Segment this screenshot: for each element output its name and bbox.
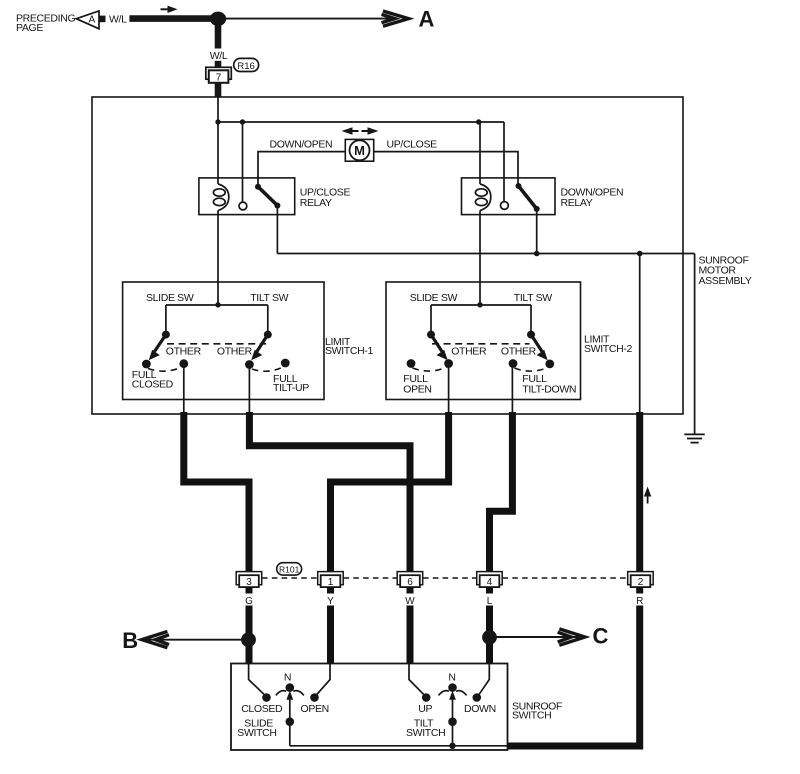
wire stubs below connectors and net colour labels xyxy=(249,587,640,593)
svg-text:OTHER: OTHER xyxy=(501,346,537,358)
sunroof switch box xyxy=(231,664,508,751)
svg-text:1: 1 xyxy=(328,577,334,588)
junction dot LS1 feed xyxy=(215,302,220,307)
LS2 tilt OTHER contact xyxy=(509,359,518,368)
wire G stub xyxy=(246,587,253,593)
svg-text:OTHER: OTHER xyxy=(217,346,253,358)
svg-text:TILT SW: TILT SW xyxy=(514,292,552,304)
wire LS2 tilt OTHER down xyxy=(511,364,513,415)
svg-text:B: B xyxy=(122,628,138,653)
relay K1 contact terminal circle xyxy=(239,202,247,210)
wire G inside switch xyxy=(249,664,265,695)
LS1 slide switch pivot xyxy=(162,331,170,339)
LS1 FULL TILT-UP contact xyxy=(281,359,290,368)
junction dot rail x478.7 xyxy=(476,119,481,124)
LS1 tilt switch arm arrow xyxy=(251,335,268,361)
FULL TILT-DOWN label xyxy=(522,373,576,396)
TILT SWITCH label xyxy=(406,718,445,740)
wire motor right to relay2 switch xyxy=(374,152,518,186)
svg-text:SLIDE SW: SLIDE SW xyxy=(410,292,458,304)
svg-text:N: N xyxy=(448,671,455,683)
mechanical link dashed (LS2) xyxy=(432,343,530,345)
connector 6 xyxy=(397,572,423,588)
ground xyxy=(684,434,704,442)
wire rail corner to right relay contact terminal xyxy=(503,122,505,202)
wire R to switch xyxy=(508,606,640,747)
junction dot ground rail x536.7 xyxy=(534,251,540,257)
wire motor left to relay1 switch xyxy=(258,152,345,187)
mechanical link dashed (LS1) xyxy=(167,343,266,345)
connector 4 xyxy=(477,572,503,588)
PRECEDING PAGE label xyxy=(16,13,75,35)
junction dot ground rail x639.7 xyxy=(637,251,643,257)
relay K1 UP/CLOSE relay box xyxy=(199,178,295,215)
LS2 slide switch pivot xyxy=(427,331,435,339)
svg-text:RELAY: RELAY xyxy=(561,197,593,209)
wire thick vertical W/L down xyxy=(215,16,222,49)
DOWN/OPEN RELAY label xyxy=(561,187,624,209)
svg-text:SWITCH-2: SWITCH-2 xyxy=(584,343,632,355)
connector label R101 xyxy=(277,563,302,575)
connector 7 xyxy=(206,67,232,83)
svg-text:CLOSED: CLOSED xyxy=(132,378,174,390)
svg-text:G: G xyxy=(245,596,253,607)
svg-text:R16: R16 xyxy=(237,61,254,72)
slide switch common arrow xyxy=(286,691,293,746)
svg-text:N: N xyxy=(284,671,291,683)
LS1 slide switch arm arrow xyxy=(149,335,166,361)
wire W/L inside box down xyxy=(217,97,219,122)
tilt switch DOWN contact xyxy=(473,693,482,702)
flow arrow on W/L wire xyxy=(161,6,178,13)
relay K2 DOWN/OPEN relay box xyxy=(462,178,556,215)
tilt switch pivot N xyxy=(448,683,457,692)
wire LS2 top tee xyxy=(431,304,531,306)
tilt common dot xyxy=(448,717,457,726)
svg-text:OTHER: OTHER xyxy=(166,346,202,358)
svg-text:Y: Y xyxy=(327,596,334,607)
slide switch CLOSED contact xyxy=(262,693,271,702)
relay K2 contact terminal circle xyxy=(501,202,509,210)
dashed travel arc (LS2 slide) xyxy=(413,367,448,371)
wire switch common rail xyxy=(290,745,508,747)
wire LS2 slide OTHER down xyxy=(448,364,450,415)
sunroof motor assembly box xyxy=(92,97,683,414)
SUNROOF MOTOR ASSEMBLY label xyxy=(699,254,752,287)
connector 1 xyxy=(318,572,344,588)
wire LS1 top tee xyxy=(166,304,268,306)
wire Y inside switch xyxy=(317,664,331,695)
LIMIT SWITCH-2 label xyxy=(584,334,632,355)
LS1 tilt switch pivot xyxy=(264,331,272,339)
wire W stub xyxy=(407,587,414,593)
limit switch-2 box xyxy=(386,282,581,400)
tilt switch common arrow xyxy=(449,691,456,746)
wire R stub xyxy=(636,587,643,593)
svg-text:DOWN/OPEN: DOWN/OPEN xyxy=(270,139,333,151)
wire Y thick route xyxy=(331,412,449,572)
wire L stub xyxy=(486,587,493,593)
LS1 FULL CLOSED contact xyxy=(142,360,151,369)
svg-text:6: 6 xyxy=(407,577,413,588)
page connector triangle A xyxy=(76,11,105,29)
wire rail to left relay contact terminal xyxy=(242,122,244,202)
arrowhead C xyxy=(558,629,585,645)
wire to chassis ground xyxy=(694,254,696,434)
limit switch-1 box xyxy=(123,282,324,400)
tilt switch UP contact xyxy=(422,693,431,702)
wire relay K2 arm to ground rail xyxy=(536,209,538,254)
LS2 FULL TILT-DOWN contact xyxy=(545,360,554,369)
svg-text:DOWN: DOWN xyxy=(464,703,496,715)
connector label R16 xyxy=(234,58,259,72)
wire LS1 right drop xyxy=(267,305,269,335)
junction dot LS2 feed xyxy=(477,302,482,307)
svg-text:W: W xyxy=(405,596,415,607)
wire L to switch xyxy=(486,606,493,664)
svg-text:W/L: W/L xyxy=(210,50,228,62)
wire LS1 tilt OTHER down xyxy=(248,365,250,415)
relay K2 coil xyxy=(475,184,490,211)
svg-text:SWITCH: SWITCH xyxy=(512,710,551,722)
svg-text:L: L xyxy=(487,596,493,607)
wire R thick route xyxy=(636,412,643,572)
svg-text:TILT-UP: TILT-UP xyxy=(273,382,309,394)
wire to C xyxy=(490,636,582,638)
svg-text:R: R xyxy=(636,596,643,607)
slide common dot xyxy=(286,717,295,726)
svg-text:ASSEMBLY: ASSEMBLY xyxy=(699,275,752,287)
wire W inside switch xyxy=(409,664,424,695)
dashed travel arc (LS1 tilt) xyxy=(252,367,284,372)
svg-text:PAGE: PAGE xyxy=(16,22,43,34)
wire W/L thick horizontal top xyxy=(129,15,217,22)
svg-text:OPEN: OPEN xyxy=(403,384,431,396)
wire thick below connector 7 xyxy=(215,83,222,98)
wire thick to connector 7 xyxy=(215,61,222,68)
SLIDE SWITCH label xyxy=(237,718,276,740)
wire power rail horizontal xyxy=(218,121,504,123)
wire arrow to A xyxy=(224,18,398,20)
svg-text:RELAY: RELAY xyxy=(300,197,332,209)
harness dashed line through connectors xyxy=(262,577,628,579)
svg-text:SWITCH: SWITCH xyxy=(237,727,276,739)
svg-text:2: 2 xyxy=(638,577,644,588)
svg-text:W/L: W/L xyxy=(109,13,127,25)
flow arrow up on wire R xyxy=(644,487,651,504)
FULL CLOSED label xyxy=(132,369,174,390)
svg-text:A: A xyxy=(88,14,95,25)
svg-text:A: A xyxy=(419,6,435,31)
wire Y stub xyxy=(327,587,334,593)
SUNROOF SWITCH label xyxy=(512,700,562,721)
FULL OPEN label xyxy=(403,373,431,396)
UP/CLOSE RELAY label xyxy=(300,187,351,209)
junction node top xyxy=(210,12,226,26)
wire G thick route xyxy=(184,412,249,572)
LS2 tilt switch pivot xyxy=(527,331,535,339)
LS1 tilt OTHER contact xyxy=(245,360,254,369)
slide switch OPEN contact xyxy=(310,693,319,702)
svg-text:TILT SW: TILT SW xyxy=(250,292,288,304)
wire L thick route xyxy=(490,412,513,572)
dashed travel arc (LS1 slide) xyxy=(148,367,182,371)
node B junction xyxy=(241,632,256,647)
svg-text:7: 7 xyxy=(216,73,222,84)
svg-text:TILT-DOWN: TILT-DOWN xyxy=(522,384,576,396)
svg-text:SLIDE SW: SLIDE SW xyxy=(146,292,194,304)
wire LS1 slide OTHER down xyxy=(183,364,185,414)
tilt wiper arcs xyxy=(439,691,467,696)
wire LS1 left drop xyxy=(165,305,167,335)
wire L inside switch xyxy=(479,664,490,695)
wire relay K1 arm to ground rail xyxy=(276,206,278,254)
motor direction arrows xyxy=(342,127,379,135)
svg-text:UP: UP xyxy=(418,703,432,715)
wire rail to left relay coil xyxy=(217,122,219,184)
junction dot rail x242.5 xyxy=(240,119,245,124)
svg-text:M: M xyxy=(354,143,365,158)
svg-text:C: C xyxy=(593,623,609,648)
LS2 slide switch arm arrow xyxy=(431,335,448,361)
wire R net vertical (thin inside box) xyxy=(639,254,641,415)
wire to B xyxy=(144,639,248,641)
wire relay K2 coil to limit switch 2 xyxy=(479,211,481,306)
LS2 slide OTHER contact xyxy=(444,359,453,368)
LS2 FULL OPEN contact xyxy=(407,359,416,368)
svg-text:SWITCH: SWITCH xyxy=(406,727,445,739)
relay K2 switch arm xyxy=(516,183,540,212)
svg-text:CLOSED: CLOSED xyxy=(241,703,283,715)
arrowhead B xyxy=(142,632,169,648)
slide switch pivot N xyxy=(286,683,295,692)
junction dot rail x218 xyxy=(215,119,220,124)
LIMIT SWITCH-1 label xyxy=(325,336,373,357)
connector 2 xyxy=(628,572,654,588)
relay K1 coil xyxy=(213,184,228,211)
wire W to switch xyxy=(407,606,414,664)
LS2 tilt switch arm arrow xyxy=(531,335,548,361)
wire W thick route xyxy=(249,412,410,572)
wire LS2 left drop xyxy=(430,305,432,335)
dashed travel arc (LS2 tilt) xyxy=(515,368,549,372)
wire LS2 right drop xyxy=(530,305,532,335)
LS1 slide OTHER contact xyxy=(179,359,188,368)
wire Y to switch xyxy=(327,606,334,664)
wire relay K1 coil to limit switch 1 xyxy=(217,211,219,306)
arrowhead A xyxy=(382,11,409,26)
slide wiper arcs xyxy=(276,691,304,696)
node C junction xyxy=(482,630,497,645)
svg-text:OTHER: OTHER xyxy=(451,346,487,358)
svg-text:UP/CLOSE: UP/CLOSE xyxy=(387,139,438,151)
wire rail to right relay coil xyxy=(479,122,481,184)
FULL TILT-UP label xyxy=(273,373,309,394)
svg-text:4: 4 xyxy=(487,577,493,588)
wire G to switch xyxy=(246,606,253,664)
connector 3 xyxy=(236,572,262,588)
motor M1 sunroof motor xyxy=(345,139,373,161)
svg-text:3: 3 xyxy=(246,577,252,588)
svg-text:OPEN: OPEN xyxy=(301,703,329,715)
junction dot common rail xyxy=(449,743,455,749)
relay K1 switch arm xyxy=(255,184,280,209)
wire ground rail horizontal xyxy=(277,253,694,255)
svg-text:SWITCH-1: SWITCH-1 xyxy=(325,345,373,357)
svg-text:R101: R101 xyxy=(279,564,300,574)
